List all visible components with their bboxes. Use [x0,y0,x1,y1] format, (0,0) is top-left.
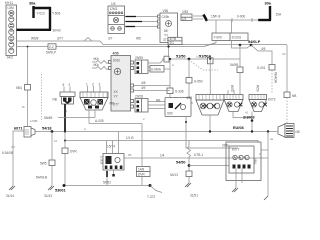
svg-text:2/1031: 2/1031 [232,36,242,40]
svg-text:277: 277 [114,103,120,107]
fuse F2 15A (top right, bold) [258,2,282,21]
svg-text:1/09B: 1/09B [30,119,37,123]
connector block 29/59 [135,56,164,73]
wire y=158 to right [124,154,268,159]
svg-text:B: B [191,101,193,105]
svg-text:W5/8: W5/8 [31,37,39,41]
svg-text:2-2: 2-2 [49,45,54,49]
svg-text:Y-012: Y-012 [37,12,45,16]
motor M71 (bottom left) [2,127,35,199]
svg-text:5: 5 [63,83,65,87]
bus wire 2 (y=46.5) [17,43,216,55]
svg-text:54/5B: 54/5B [230,63,238,67]
ground bus y=185.5 [55,184,162,199]
svg-text:3/77: 3/77 [57,37,63,41]
svg-text:15A: 15A [276,13,283,17]
svg-text:S-650: S-650 [194,80,203,84]
svg-text:54/9LP: 54/9LP [46,51,56,55]
svg-text:NB: NB [292,94,296,98]
svg-text:51/50: 51/50 [176,55,186,59]
svg-text:U84: U84 [253,158,257,164]
bus wire 1 (y=41) [17,37,288,47]
main bus y=131.5 [35,127,278,133]
svg-text:A: A [84,127,86,131]
svg-text:K073: K073 [268,98,276,102]
wires 12/8 to V56 with shielded bold segments [125,15,161,28]
svg-text:4Kb: 4Kb [93,57,99,61]
svg-text:0-000: 0-000 [237,15,245,19]
horn N875 [278,124,303,138]
svg-text:54/13: 54/13 [170,173,178,177]
svg-text:MY11: MY11 [5,1,13,5]
lamp cluster 4/52 [186,59,224,132]
wires below relays [44,104,142,132]
svg-text:4/56: 4/56 [113,52,119,56]
svg-text:54/08-B: 54/08-B [36,176,47,180]
svg-text:EU/08: EU/08 [233,126,244,130]
svg-text:2: 2 [92,83,94,87]
svg-text:NB: NB [156,99,160,103]
svg-text:4/9: 4/9 [141,86,146,90]
svg-text:1/5: 1/5 [111,2,116,6]
wire 54/50 to K077 [189,165,229,167]
svg-text:29 B: 29 B [222,144,229,148]
switch module S50 [156,98,191,117]
bold supply wire to strip [17,29,52,31]
bus wire B 51/50 (y=59) [162,54,240,64]
svg-text:1/1: 1/1 [182,17,187,21]
svg-text:2/1003: 2/1003 [243,116,255,120]
relay 15/74 (bottom centre) [100,132,125,186]
svg-text:2/83: 2/83 [182,10,188,14]
svg-text:88: 88 [164,29,168,33]
twisted wire UTB-1 and junction 54/50 [170,141,203,198]
svg-text:MB: MB [110,102,115,106]
svg-text:1/4: 1/4 [160,154,165,158]
svg-text:54/50: 54/50 [176,161,186,165]
svg-text:1/1 B: 1/1 B [126,136,133,140]
dashed harness line [41,74,43,122]
svg-text:12M1: 12M1 [110,7,118,11]
wire x=52 to ground 31/43 [36,132,55,199]
svg-text:N875: N875 [296,130,301,134]
svg-text:14/8: 14/8 [138,168,144,172]
inline box U-M0A [150,66,170,73]
S50 output down then right [185,117,238,149]
svg-text:53001: 53001 [55,189,66,193]
component box V56 [160,9,178,43]
fuse F1 30a (top left, bold) [29,2,60,31]
connector 2/83 right of V56 [181,10,203,21]
svg-text:UTB-1: UTB-1 [194,153,203,157]
svg-text:30/43: 30/43 [53,28,61,32]
twisted pair into 4/56 [92,57,111,70]
svg-text:3/7: 3/7 [108,37,113,41]
svg-text:30a: 30a [265,2,272,6]
bold splice mark [204,15,208,22]
svg-text:C49b: C49b [162,15,170,19]
module mid wires 4/8 4/9 [134,81,171,91]
svg-text:VKAOA: VKAOA [274,72,278,84]
control module 4/56 (big grey box) [109,52,134,112]
svg-text:JA/2: JA/2 [7,56,14,60]
bus y=140.5 [64,136,258,143]
svg-text:K077: K077 [232,148,240,152]
svg-text:T-372: T-372 [147,195,155,199]
svg-text:601b: 601b [113,59,120,63]
svg-text:6 54/08: 6 54/08 [2,151,13,155]
svg-text:A: A [172,63,174,67]
svg-text:1-003: 1-003 [100,156,104,164]
dashed link [191,62,218,71]
svg-text:DVR: DVR [138,173,145,177]
svg-text:3: 3 [99,83,101,87]
svg-text:31/44: 31/44 [6,194,14,198]
svg-text:DVR: DVR [70,150,77,154]
lamp cluster K073 [243,85,276,132]
svg-text:A3: A3 [282,52,286,56]
svg-text:16: 16 [22,105,26,109]
svg-text:U-M0A: U-M0A [151,68,162,72]
wire V56 down to bus B [168,43,170,60]
svg-text:15/74: 15/74 [107,145,115,149]
svg-text:A-005: A-005 [95,119,104,123]
svg-text:4/5: 4/5 [261,47,266,51]
vertical feed x=170 to S50 [167,58,184,98]
switch K077 (bottom right) [226,142,261,192]
svg-text:W50: W50 [256,85,260,92]
svg-text:V56: V56 [163,9,169,13]
vertical feed x=189 with S-650 [186,59,203,98]
svg-text:31/51: 31/51 [190,194,198,198]
svg-text:W50: W50 [230,85,234,92]
right feed x=290 with NB connector [284,45,296,128]
svg-text:54/0LP: 54/0LP [248,40,261,44]
wire from strip down to M71 (x=27.5) [16,46,31,127]
svg-text:5/002: 5/002 [103,181,111,185]
svg-text:16: 16 [54,139,58,143]
svg-text:15/F-8: 15/F-8 [211,15,220,19]
svg-text:2: 2 [69,83,71,87]
top bus wire (y=20) [207,15,259,23]
motor MB (wiper motor) [80,83,114,111]
svg-text:4/8: 4/8 [141,81,146,85]
connector strip 11/1 (left column) [5,1,17,60]
svg-text:S-001: S-001 [257,66,266,70]
connector block 29/28 [135,95,165,112]
svg-text:6071: 6071 [14,127,22,131]
svg-text:54MB: 54MB [44,116,52,120]
right vertical x=268 [264,132,268,201]
component box 12/8 (top middle) [108,2,125,34]
svg-text:5W5: 5W5 [40,162,47,166]
svg-text:Y-505: Y-505 [52,12,60,16]
S-001 feed to K073 [251,45,278,94]
svg-text:30a: 30a [29,2,36,6]
lamp cluster 29/9 [224,95,252,118]
junction NB1 on x=234 [228,45,243,95]
svg-text:A1: A1 [245,111,249,115]
svg-text:54/18: 54/18 [42,127,52,131]
svg-text:S50: S50 [167,112,173,116]
svg-text:Y-000: Y-000 [214,36,222,40]
wire designation labels [22,52,286,157]
svg-text:4/52: 4/52 [186,96,192,100]
svg-text:4Kb: 4Kb [93,63,99,67]
svg-text:4a: 4a [270,137,274,141]
svg-text:S-336: S-336 [175,90,184,94]
svg-text:5M1: 5M1 [16,86,22,90]
svg-text:1B: 1B [128,153,132,157]
svg-text:31/43: 31/43 [44,194,52,198]
junction box Y-000 / 2/1031 [204,20,251,48]
svg-text:W5: W5 [136,37,141,41]
svg-text:2/1: 2/1 [170,41,175,45]
svg-text:1: 1 [86,83,88,87]
svg-text:L5M: L5M [8,6,15,10]
svg-text:29/28: 29/28 [135,95,143,99]
inline connector DVR on x=65 [62,132,77,186]
relay NB (small, left of MB) [53,83,76,104]
svg-text:L/N: L/N [196,55,200,59]
stacked connector 14/8 DVR [137,124,151,186]
svg-text:NB: NB [53,98,57,102]
